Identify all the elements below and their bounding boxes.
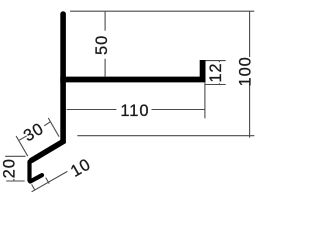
extension ticks for 20 (5, 156, 25, 181)
dimension line 20 (13, 179, 15, 181)
dimension 12 extension lines (205, 61, 226, 85)
extension lines for 30 (16, 118, 59, 156)
svg-text:100: 100 (237, 56, 255, 86)
svg-text:50: 50 (93, 35, 111, 55)
dimension line 110 (67, 109, 205, 111)
dimension line 50 (104, 11, 106, 76)
extension lines for 10 (32, 178, 50, 190)
extension line right of 110 (204, 82, 206, 118)
profile bottom vertical and hem (thinner) (30, 159, 35, 181)
svg-text:20: 20 (0, 158, 18, 178)
profile web and 30-degree bend (thick vertical + diagonal) (32, 14, 64, 160)
dimension line 12 (218, 61, 220, 85)
svg-text:110: 110 (120, 102, 149, 120)
top extension line (70, 10, 254, 12)
profile hem (thick, bent back at 30 degrees) (30, 175, 42, 181)
profile horizontal arm with end upstand (thick) (60, 60, 202, 80)
extension line bottom of 100 (77, 135, 254, 137)
dimension line 100 (249, 11, 251, 137)
dimension line 30 (19, 122, 50, 140)
dimension line 10 (32, 171, 68, 191)
svg-text:12: 12 (207, 63, 225, 83)
